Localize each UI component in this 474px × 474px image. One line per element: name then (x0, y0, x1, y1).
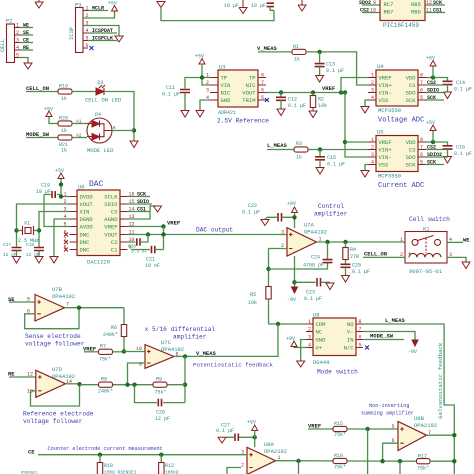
svg-text:5: 5 (16, 53, 19, 59)
svg-text:CS: CS (409, 147, 416, 154)
svg-text:D3: D3 (98, 80, 104, 86)
svg-text:U7B: U7B (52, 286, 63, 293)
svg-text:OPA2192: OPA2192 (414, 422, 437, 429)
svg-text:240k*: 240k* (103, 332, 118, 338)
svg-text:4700 pF: 4700 pF (303, 263, 324, 269)
svg-text:0.1 µF: 0.1 µF (327, 162, 345, 168)
svg-text:0.1 µF: 0.1 µF (162, 92, 180, 98)
svg-text:DNC: DNC (80, 232, 91, 239)
svg-text:DAC: DAC (89, 180, 104, 189)
svg-text:VREF: VREF (322, 85, 335, 92)
svg-text:9007-05-01: 9007-05-01 (409, 268, 443, 275)
svg-text:MODE LED: MODE LED (87, 147, 114, 154)
svg-text:C13: C13 (326, 62, 335, 68)
svg-text:CS: CS (409, 82, 416, 89)
svg-text:R7: R7 (100, 344, 106, 350)
svg-text:C11: C11 (166, 85, 175, 91)
svg-text:NC: NC (316, 329, 323, 336)
svg-text:SDIO: SDIO (104, 201, 118, 208)
svg-text:75k*: 75k* (99, 357, 111, 363)
svg-text:7: 7 (66, 302, 69, 308)
svg-text:2: 2 (16, 30, 19, 36)
svg-text:voltage follower: voltage follower (23, 418, 83, 425)
svg-text:240k*: 240k* (98, 389, 113, 395)
svg-text:100Ω RSENSE1: 100Ω RSENSE1 (104, 470, 137, 474)
svg-text:D4: D4 (95, 112, 101, 118)
svg-text:3: 3 (16, 38, 19, 44)
svg-text:VIN: VIN (221, 82, 231, 89)
svg-text:0.1 µF: 0.1 µF (326, 68, 344, 74)
svg-text:Sense electrode: Sense electrode (25, 333, 81, 340)
svg-text:10k: 10k (318, 103, 327, 109)
svg-text:2.5V Reference: 2.5V Reference (217, 118, 269, 125)
svg-text:ICSP: ICSP (68, 27, 75, 40)
svg-text:5: 5 (27, 297, 30, 303)
svg-text:2: 2 (400, 252, 403, 258)
svg-text:0.1 µF: 0.1 µF (454, 87, 472, 93)
svg-text:10: 10 (136, 346, 142, 352)
svg-text:MCP3550: MCP3550 (378, 107, 401, 114)
svg-text:summing amplifier: summing amplifier (361, 411, 414, 417)
svg-text:100kΩ: 100kΩ (165, 470, 179, 474)
svg-text:VSS: VSS (379, 97, 390, 104)
svg-text:75k*: 75k* (334, 465, 346, 471)
svg-text:A2: A2 (76, 133, 82, 139)
svg-text:+5V: +5V (426, 56, 435, 62)
svg-text:27R: 27R (350, 254, 359, 260)
svg-text:2: 2 (371, 145, 374, 151)
svg-text:0.1 µF: 0.1 µF (352, 269, 370, 275)
svg-text:ADR421: ADR421 (218, 110, 236, 116)
svg-text:R4: R4 (350, 247, 356, 253)
svg-text:75k*: 75k* (155, 390, 167, 396)
svg-text:U5: U5 (377, 129, 384, 136)
svg-text:7: 7 (261, 80, 264, 86)
svg-text:4: 4 (371, 95, 374, 101)
svg-text:VIN-: VIN- (379, 154, 392, 161)
svg-text:CS2: CS2 (427, 145, 436, 151)
svg-text:SCK: SCK (427, 95, 436, 101)
svg-text:OPA4192: OPA4192 (52, 293, 75, 300)
svg-text:1: 1 (308, 319, 311, 325)
svg-text:Cell switch: Cell switch (409, 216, 450, 223)
svg-text:R2: R2 (318, 97, 324, 103)
svg-text:DAC1220: DAC1220 (87, 259, 110, 266)
svg-text:OPA2192: OPA2192 (264, 448, 287, 455)
svg-text:-: - (437, 251, 440, 257)
svg-text:3: 3 (449, 252, 452, 258)
svg-text:VIN+: VIN+ (379, 147, 392, 154)
svg-text:SCLK: SCLK (104, 194, 118, 201)
svg-text:amplifier: amplifier (173, 334, 207, 341)
svg-text:+5V: +5V (195, 54, 204, 60)
svg-text:VREF: VREF (104, 224, 117, 231)
svg-text:R17: R17 (418, 454, 427, 460)
svg-text:C26: C26 (156, 410, 165, 416)
svg-text:U7A: U7A (304, 222, 315, 229)
svg-text:6: 6 (261, 88, 264, 94)
svg-text:3: 3 (308, 335, 311, 341)
svg-text:SDO: SDO (406, 90, 417, 97)
svg-text:C14: C14 (456, 80, 465, 86)
svg-text:C18: C18 (26, 242, 34, 248)
svg-text:OPA4192: OPA4192 (304, 229, 327, 236)
svg-text:3: 3 (206, 88, 209, 94)
svg-text:10 µF: 10 µF (36, 189, 51, 195)
svg-text:CELL_ON: CELL_ON (364, 251, 387, 258)
svg-text:8: 8 (420, 137, 423, 143)
svg-text:R10: R10 (104, 463, 113, 469)
svg-text:PIC16F1459: PIC16F1459 (383, 22, 419, 29)
svg-text:6: 6 (359, 335, 362, 341)
svg-text:10 nF: 10 nF (145, 263, 160, 269)
svg-text:1k: 1k (61, 96, 67, 102)
svg-text:Mode switch: Mode switch (317, 369, 358, 376)
svg-text:Potentiostatic feedback: Potentiostatic feedback (193, 362, 274, 369)
svg-text:CE: CE (28, 449, 35, 456)
svg-text:V_MEAS: V_MEAS (196, 350, 217, 357)
svg-text:R9: R9 (156, 377, 162, 383)
svg-text:Voltage ADC: Voltage ADC (378, 117, 424, 125)
svg-text:TP: TP (249, 75, 256, 82)
svg-text:5: 5 (420, 160, 423, 166)
svg-text:TP: TP (221, 75, 228, 82)
svg-text:L_MEAS: L_MEAS (385, 317, 406, 324)
svg-text:GND: GND (316, 337, 327, 344)
svg-text:C17: C17 (3, 242, 11, 248)
svg-text:C19: C19 (41, 183, 50, 189)
svg-text:2: 2 (206, 80, 209, 86)
svg-text:U9A: U9A (264, 441, 275, 448)
svg-text:C1: C1 (111, 247, 118, 254)
svg-text:Reference electrode: Reference electrode (23, 411, 94, 418)
svg-text:8: 8 (420, 73, 423, 79)
svg-text:0.1 µF: 0.1 µF (242, 210, 260, 216)
svg-text:5: 5 (261, 95, 264, 101)
svg-text:R5: R5 (250, 292, 256, 298)
svg-text:U7C: U7C (161, 339, 172, 346)
svg-text:1k: 1k (61, 148, 67, 154)
svg-text:VDD: VDD (406, 75, 417, 82)
svg-text:6: 6 (420, 152, 423, 158)
svg-text:R12: R12 (165, 463, 174, 469)
svg-text:RB6: RB6 (411, 9, 421, 16)
svg-text:NIC: NIC (246, 82, 257, 89)
svg-text:VOUT: VOUT (242, 90, 256, 97)
svg-text:7: 7 (420, 80, 423, 86)
svg-text:Galvanostatic feedback: Galvanostatic feedback (437, 342, 444, 419)
svg-text:12 pF: 12 pF (26, 252, 40, 258)
svg-text:VREF: VREF (167, 220, 180, 227)
svg-text:4: 4 (16, 45, 19, 51)
svg-text:AGND: AGND (104, 216, 118, 223)
svg-text:4: 4 (371, 160, 374, 166)
svg-text:TRIM: TRIM (242, 97, 255, 104)
svg-text:X1: X1 (24, 221, 30, 227)
svg-text:1: 1 (16, 23, 19, 29)
svg-text:7: 7 (420, 145, 423, 151)
svg-text:+5V: +5V (108, 1, 117, 7)
svg-text:C24: C24 (311, 255, 320, 261)
svg-text:voltage follower: voltage follower (25, 341, 85, 348)
svg-text:VREF: VREF (379, 139, 392, 146)
svg-text:DAC output: DAC output (196, 227, 233, 234)
svg-text:5: 5 (359, 343, 362, 349)
svg-text:GND: GND (221, 97, 232, 104)
svg-text:COM: COM (316, 321, 326, 328)
svg-text:DGND: DGND (80, 216, 94, 223)
svg-text:MODE_SW: MODE_SW (370, 333, 394, 340)
svg-text:8: 8 (359, 319, 362, 325)
svg-text:5: 5 (420, 95, 423, 101)
svg-text:RC7: RC7 (384, 1, 394, 8)
svg-text:R6: R6 (111, 325, 117, 331)
svg-text:0.1 µF: 0.1 µF (454, 151, 472, 157)
svg-text:C25: C25 (352, 263, 361, 269)
svg-text:U3: U3 (219, 64, 226, 71)
svg-text:R3: R3 (296, 141, 302, 147)
svg-text:VDD: VDD (406, 139, 417, 146)
svg-text:U4: U4 (377, 63, 384, 70)
svg-text:12 pF: 12 pF (155, 416, 170, 422)
svg-text:U9B: U9B (414, 415, 425, 422)
svg-text:N/C: N/C (344, 345, 355, 352)
svg-text:L_MEAS: L_MEAS (267, 142, 288, 149)
svg-text:IN: IN (347, 337, 354, 344)
svg-text:Current ADC: Current ADC (378, 182, 424, 190)
svg-text:3: 3 (371, 88, 374, 94)
svg-text:C12: C12 (288, 97, 297, 103)
svg-text:DG449: DG449 (313, 359, 330, 366)
svg-text:7: 7 (359, 327, 362, 333)
svg-text:C21: C21 (146, 257, 155, 263)
svg-text:-9V: -9V (287, 297, 296, 303)
svg-text:VIN-: VIN- (379, 90, 392, 97)
svg-text:12: 12 (27, 372, 33, 378)
svg-text:1: 1 (371, 73, 374, 79)
svg-text:DNC: DNC (80, 239, 91, 246)
svg-text:SDO: SDO (406, 154, 417, 161)
svg-text:+9V: +9V (287, 201, 296, 207)
svg-text:3: 3 (281, 229, 284, 235)
svg-text:R18: R18 (334, 453, 343, 459)
svg-text:SCK: SCK (427, 160, 436, 166)
svg-text:Control: Control (318, 203, 344, 210)
svg-text:R19: R19 (59, 84, 68, 90)
svg-text:CS2: CS2 (427, 80, 436, 86)
svg-text:1k: 1k (296, 155, 302, 161)
svg-text:VIN+: VIN+ (379, 82, 392, 89)
svg-text:R20: R20 (59, 116, 68, 122)
svg-text:C2: C2 (111, 239, 118, 246)
svg-text:+: + (408, 251, 411, 257)
svg-text:VOUT: VOUT (104, 232, 118, 239)
svg-text:0.1 µF: 0.1 µF (216, 428, 234, 434)
svg-text:A1: A1 (76, 119, 82, 125)
svg-text:AVDD: AVDD (80, 224, 94, 231)
svg-text:amplifier: amplifier (314, 211, 348, 218)
svg-text:75k*: 75k* (334, 432, 346, 438)
svg-text:C22: C22 (248, 203, 257, 209)
svg-text:CS: CS (111, 209, 118, 216)
svg-text:3: 3 (371, 152, 374, 158)
svg-text:Non-inverting: Non-inverting (369, 403, 409, 409)
svg-text:WE: WE (463, 236, 470, 243)
svg-text:2: 2 (371, 80, 374, 86)
svg-text:CELL ON LED: CELL ON LED (85, 97, 122, 104)
svg-text:MCP3550: MCP3550 (378, 173, 401, 180)
svg-text:VREF: VREF (379, 75, 392, 82)
svg-text:5: 5 (392, 424, 395, 430)
svg-text:XOUT: XOUT (80, 201, 94, 208)
svg-text:8: 8 (261, 73, 264, 79)
svg-text:NO: NO (347, 321, 354, 328)
svg-text:6: 6 (86, 43, 89, 49)
svg-text:4: 4 (449, 237, 452, 243)
svg-text:0.1 µF: 0.1 µF (304, 296, 322, 302)
svg-text:+5V: +5V (55, 168, 64, 174)
svg-text:RB7: RB7 (384, 9, 394, 16)
svg-text:x 5/16 differential: x 5/16 differential (145, 326, 216, 333)
svg-text:Counter electrode current meas: Counter electrode current measurement (48, 446, 163, 452)
svg-text:V_MEAS: V_MEAS (257, 45, 278, 52)
svg-text:DVDD: DVDD (80, 194, 94, 201)
svg-text:2: 2 (308, 327, 311, 333)
svg-text:0.1 µF: 0.1 µF (288, 103, 306, 109)
svg-text:12 pF: 12 pF (3, 252, 17, 258)
svg-text:C16: C16 (456, 145, 465, 151)
svg-text:V+: V+ (316, 345, 323, 352)
svg-text:SDIO2: SDIO2 (427, 152, 442, 158)
svg-text:CELL: CELL (0, 39, 6, 52)
svg-text:R8: R8 (101, 377, 107, 383)
svg-text:R15: R15 (334, 421, 343, 427)
svg-text:C15: C15 (327, 155, 336, 161)
svg-text:+5V: +5V (426, 120, 435, 126)
svg-text:1: 1 (206, 73, 209, 79)
svg-text:2: 2 (241, 463, 244, 469)
svg-text:10 µF: 10 µF (251, 3, 266, 9)
svg-text:+9V: +9V (286, 336, 295, 342)
svg-text:R1: R1 (293, 44, 299, 50)
svg-text:DNC: DNC (80, 247, 91, 254)
svg-text:V-: V- (347, 329, 354, 336)
svg-text:U7D: U7D (52, 366, 63, 373)
svg-text:VSS: VSS (379, 162, 390, 169)
svg-text:SDIO: SDIO (427, 88, 439, 94)
svg-text:4: 4 (308, 343, 311, 349)
svg-text:1: 1 (400, 237, 403, 243)
svg-text:-9V: -9V (408, 349, 417, 355)
svg-text:1k: 1k (294, 57, 300, 63)
svg-text:75k*: 75k* (417, 466, 429, 472)
svg-text:10 µF: 10 µF (224, 3, 239, 9)
svg-text:10k: 10k (248, 300, 257, 306)
svg-text:RB5: RB5 (411, 1, 421, 8)
svg-text:NIC: NIC (221, 90, 232, 97)
svg-text:C23: C23 (306, 290, 315, 296)
svg-text:XIN: XIN (80, 209, 90, 216)
svg-text:SCK: SCK (406, 97, 417, 104)
svg-text:1: 1 (371, 137, 374, 143)
svg-text:1k: 1k (61, 128, 67, 134)
svg-text:SCK: SCK (406, 162, 417, 169)
svg-text:6: 6 (420, 88, 423, 94)
